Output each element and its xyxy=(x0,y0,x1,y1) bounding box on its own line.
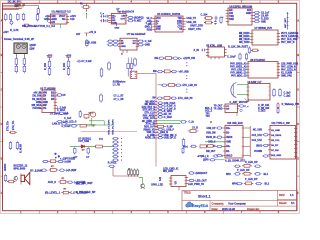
resistor R10 xyxy=(58,181,67,184)
svg-text:C?_0.1uF: C?_0.1uF xyxy=(82,61,93,63)
svg-text:LED_PWR_5V: LED_PWR_5V xyxy=(188,183,204,186)
svg-text:PHY_CLK_25M: PHY_CLK_25M xyxy=(281,39,297,41)
U11 inner labels xyxy=(271,129,282,157)
U6 inner text xyxy=(229,10,252,21)
net labels ETH column b xyxy=(13,120,15,130)
row C label xyxy=(245,178,258,181)
resistor R27 xyxy=(100,93,103,102)
diode D7 xyxy=(81,145,85,152)
mid row w+ xyxy=(183,145,225,149)
svg-text:E: E xyxy=(297,158,299,161)
svg-text:BL2: BL2 xyxy=(265,183,270,186)
wire q green a xyxy=(90,118,92,125)
svg-text:R_UP_10K: R_UP_10K xyxy=(258,105,270,107)
wire mid red vertical xyxy=(112,168,114,177)
frame column ticks top xyxy=(39,1,260,4)
capacitor C12 xyxy=(254,165,261,167)
continuation dots b xyxy=(186,75,187,79)
net label LAN_LED xyxy=(56,120,76,123)
resistor R2 xyxy=(23,57,26,73)
svg-text:ETH_VC_TAP2: ETH_VC_TAP2 xyxy=(112,119,115,135)
svg-text:C_104: C_104 xyxy=(201,14,208,17)
svg-text:Sheet:: Sheet: xyxy=(279,202,287,205)
U11 left rows xyxy=(252,130,270,158)
U8 left pins xyxy=(246,64,248,76)
svg-text:R_Wakeup_PW: R_Wakeup_PW xyxy=(282,103,300,106)
svg-text:C_x: C_x xyxy=(245,106,250,108)
svg-text:CC2_5.1K: CC2_5.1K xyxy=(252,140,263,142)
row2 right label xyxy=(179,71,190,73)
R11 value xyxy=(64,188,67,190)
capacitor C29 xyxy=(156,97,163,99)
UB pins xyxy=(118,41,139,47)
R10 value xyxy=(62,178,65,180)
svg-text:C10: C10 xyxy=(70,18,75,21)
U3 pin numbers xyxy=(171,178,186,185)
wire LAN to right xyxy=(67,124,96,126)
svg-text:C5: C5 xyxy=(63,95,67,97)
row B right net xyxy=(264,173,269,176)
svg-text:MII_MDIO: MII_MDIO xyxy=(145,104,156,106)
resistor R21 xyxy=(100,67,103,77)
svg-text:C_2x: C_2x xyxy=(189,122,195,124)
UA pins xyxy=(108,15,111,23)
net labels micro xyxy=(113,81,126,87)
svg-text:C_DEC: C_DEC xyxy=(258,111,266,113)
svg-text:PC?_USB: PC?_USB xyxy=(78,141,89,143)
UA green dot xyxy=(126,15,127,16)
svg-text:C2?: C2? xyxy=(76,34,81,36)
svg-text:NP3: NP3 xyxy=(232,183,237,186)
svg-text:ANT_NET: ANT_NET xyxy=(284,17,287,28)
IC U5 title xyxy=(206,44,222,47)
U9 right labels xyxy=(284,92,292,97)
svg-text:VIN: VIN xyxy=(43,93,47,95)
U3 bottom wire xyxy=(178,187,180,191)
U3 left label xyxy=(151,184,163,187)
svg-text:MII_TXD0: MII_TXD0 xyxy=(239,42,250,44)
svg-text:R?: R? xyxy=(62,178,65,180)
svg-text:GPIO_LED: GPIO_LED xyxy=(151,184,163,187)
svg-text:RXD: RXD xyxy=(229,19,234,21)
svg-text:R232: R232 xyxy=(147,29,153,31)
svg-text:C3_NP: C3_NP xyxy=(261,15,269,17)
svg-text:SJ1: SJ1 xyxy=(160,176,162,181)
resistor network RN1 xyxy=(128,167,139,176)
crystal Y1 xyxy=(127,58,130,77)
svg-text:PHY2_LED/USB: PHY2_LED/USB xyxy=(281,36,299,38)
capacitor C32 xyxy=(134,57,137,66)
resistor R32 xyxy=(96,145,103,148)
diode D3 xyxy=(9,131,17,133)
resistor R26 on green xyxy=(80,124,95,127)
U2 pins xyxy=(40,93,57,109)
resistor R31 xyxy=(244,182,254,185)
U1 right labels xyxy=(70,15,76,21)
U7 pin numbers xyxy=(252,33,278,42)
resistor R24 xyxy=(182,138,185,147)
svg-text:R_NET: R_NET xyxy=(134,21,142,23)
svg-text:TITLE:: TITLE: xyxy=(184,192,192,195)
resistor R19 xyxy=(167,84,176,87)
svg-text:U? Var-bbd2GvF: U? Var-bbd2GvF xyxy=(127,33,146,36)
capacitor C2 xyxy=(17,13,20,21)
U6 left pins xyxy=(226,10,228,21)
svg-text:RTS: RTS xyxy=(156,29,161,31)
svg-text:C?: C? xyxy=(86,157,90,159)
svg-text:VBUS: VBUS xyxy=(226,137,233,139)
capacitor C4 xyxy=(36,13,39,21)
svg-text:F: F xyxy=(297,192,299,195)
IC U3 labels above xyxy=(163,167,179,173)
diode D5 xyxy=(179,57,182,59)
diode D4 xyxy=(245,99,249,102)
svg-text:C2S_PWR_USB: C2S_PWR_USB xyxy=(281,64,298,66)
svg-text:SHLD: SHLD xyxy=(226,155,232,157)
U3 right row2 xyxy=(188,179,207,182)
UB right rows xyxy=(137,40,152,47)
title block sheet name xyxy=(198,194,211,198)
resistor R14 xyxy=(204,17,213,20)
svg-text:SBU1: SBU1 xyxy=(256,146,263,148)
svg-text:D: D xyxy=(1,123,3,126)
svg-text:B12_GND: B12_GND xyxy=(271,155,281,157)
U12 left labels xyxy=(214,106,226,111)
U8 pin numbers xyxy=(248,64,278,76)
svg-text:USB_TX: USB_TX xyxy=(187,17,197,20)
resistor R34 xyxy=(86,147,90,159)
transistor Q5 xyxy=(89,112,96,117)
svg-text:ETH_CLK: ETH_CLK xyxy=(144,113,155,115)
U10 left rows xyxy=(206,127,223,157)
connector J1 xyxy=(15,4,25,6)
U10 pin numbers xyxy=(225,128,243,156)
EasyEDA logo xyxy=(186,202,209,208)
svg-text:(2)W: (2)W xyxy=(30,49,36,51)
IC U7 title xyxy=(255,27,273,30)
wire q green d xyxy=(91,124,113,126)
capacitor C26 xyxy=(171,70,178,72)
cluster label xyxy=(201,14,208,17)
IC U10 xyxy=(225,126,243,159)
svg-text:R?: R? xyxy=(64,188,67,190)
U3 right row1 xyxy=(188,172,208,175)
svg-text:GN: GN xyxy=(226,109,230,111)
svg-text:A4_VBUS: A4_VBUS xyxy=(271,134,282,137)
capacitor C5 xyxy=(56,94,66,97)
U6 right row2 xyxy=(252,14,269,17)
svg-text:R_49.9R: R_49.9R xyxy=(20,144,23,153)
filter row3 green stub xyxy=(158,84,163,86)
svg-text:U1 AMS1117-3.3: U1 AMS1117-3.3 xyxy=(52,10,72,13)
svg-text:C2_1uF: C2_1uF xyxy=(261,12,270,14)
svg-text:C_22uF: C_22uF xyxy=(57,110,66,112)
svg-text:REV:: REV: xyxy=(279,194,285,197)
capacitor C18 xyxy=(248,46,250,54)
U11 right pins xyxy=(296,129,298,157)
svg-text:+5V_USB: +5V_USB xyxy=(179,71,190,73)
resistor R11 xyxy=(61,191,70,194)
capacitor C35 xyxy=(86,39,88,47)
svg-text:U11 TYPE-C_16P: U11 TYPE-C_16P xyxy=(272,123,291,125)
svg-text:C_PIN_1.5uF_NP: C_PIN_1.5uF_NP xyxy=(76,191,96,194)
wire to U1 xyxy=(47,17,49,22)
R5 R6 value xyxy=(20,144,23,153)
svg-text:ETH_INT_N: ETH_INT_N xyxy=(143,110,156,112)
capacitor C6 xyxy=(41,169,48,171)
svg-text:D1-: D1- xyxy=(226,132,230,134)
IC U7 xyxy=(252,30,278,45)
svg-text:X_IN: X_IN xyxy=(194,49,200,52)
capacitor C21 xyxy=(273,88,275,97)
capacitor C13 xyxy=(234,173,241,175)
net labels ETH column a xyxy=(8,120,10,131)
U2 right labels xyxy=(57,108,66,113)
title block Company xyxy=(212,202,247,205)
net pair xyxy=(79,110,81,118)
U5 pin numbers xyxy=(208,50,209,56)
capacitor C25 xyxy=(157,70,164,72)
antenna net vertical xyxy=(284,12,288,30)
capacitor C7 xyxy=(59,169,66,171)
filter row2 label xyxy=(153,71,157,73)
UB pin numbers xyxy=(120,41,137,47)
wire green pair a xyxy=(156,120,181,122)
resistor R15 xyxy=(204,21,213,24)
wire audio green xyxy=(70,145,115,147)
U6 right row1 xyxy=(252,11,270,14)
row3 net label xyxy=(45,192,61,195)
frame column ticks bottom xyxy=(39,211,260,214)
svg-text:CC1_5.1K: CC1_5.1K xyxy=(252,135,263,137)
U6 pin numbers xyxy=(228,10,252,21)
row label low xyxy=(62,125,78,128)
rail wire xyxy=(137,74,156,167)
svg-text:L?_FB: L?_FB xyxy=(113,85,120,87)
svg-text:Your Company: Your Company xyxy=(228,202,246,205)
resistor R17 xyxy=(164,57,173,60)
svg-text:USB_RX: USB_RX xyxy=(187,21,197,24)
svg-text:FB_NET: FB_NET xyxy=(32,99,41,101)
svg-text:R_12K1: R_12K1 xyxy=(164,111,173,113)
wire below U1 xyxy=(60,24,62,28)
svg-text:DM_OUT: DM_OUT xyxy=(206,151,216,153)
U10 left pins xyxy=(223,128,225,156)
svg-text:(3)O/P(1): (3)O/P(1) xyxy=(134,17,144,19)
net label NP row xyxy=(50,112,69,116)
capacitor C24 xyxy=(172,57,179,59)
net label VIN xyxy=(10,29,19,32)
row2 net label xyxy=(48,181,57,184)
U7 below label xyxy=(228,46,249,49)
svg-text:NC_(33R)_C: NC_(33R)_C xyxy=(142,121,156,123)
svg-text:ETH_CT_TAP1: ETH_CT_TAP1 xyxy=(108,119,111,135)
net label vertical audio xyxy=(4,163,7,171)
svg-text:5: 5 xyxy=(121,54,123,56)
svg-text:VO: VO xyxy=(226,106,229,108)
power input net label xyxy=(8,1,20,4)
switch label xyxy=(22,25,55,28)
svg-text:(2)P5: (2)P5 xyxy=(203,160,209,162)
row1 right label xyxy=(66,169,77,172)
svg-text:FB: FB xyxy=(43,99,46,101)
UA below flag xyxy=(115,24,120,29)
U5 pins xyxy=(206,50,219,60)
IC U2 xyxy=(42,90,55,113)
resistor R18 xyxy=(163,70,172,73)
svg-text:ETH_LED_P2: ETH_LED_P2 xyxy=(183,85,198,87)
U7 left labels xyxy=(239,33,250,44)
resistor R16 xyxy=(251,49,259,51)
wire drop to C1 xyxy=(34,5,39,8)
transistor Q3 xyxy=(141,183,145,188)
svg-text:DC_IN_5V: DC_IN_5V xyxy=(8,1,20,4)
svg-text:USB_DP_O: USB_DP_O xyxy=(164,138,177,140)
svg-text:C_1uF: C_1uF xyxy=(145,41,153,43)
title block outline xyxy=(182,191,297,211)
svg-text:C?_L_R7: C?_L_R7 xyxy=(114,95,125,97)
U4 pins xyxy=(152,18,185,29)
svg-text:C_10uF: C_10uF xyxy=(227,56,236,59)
svg-text:PHY_RXD0_A1: PHY_RXD0_A1 xyxy=(230,63,247,66)
UB below marks xyxy=(121,50,127,56)
net label mic xyxy=(76,181,93,185)
capacitor C37 xyxy=(255,182,262,184)
svg-text:F1: F1 xyxy=(80,4,83,6)
IC U8 title xyxy=(250,59,266,62)
svg-text:1.0: 1.0 xyxy=(290,194,294,197)
row3 right label xyxy=(70,192,88,195)
capacitor C1 xyxy=(37,7,39,15)
svg-text:AVDD_33: AVDD_33 xyxy=(145,137,156,140)
svg-text:E: E xyxy=(1,158,3,161)
transistor Q4 xyxy=(84,115,89,120)
svg-text:R_12K_1%_RSET: R_12K_1%_RSET xyxy=(228,46,249,49)
U4 left labels xyxy=(145,18,153,31)
title block REV label xyxy=(279,194,294,197)
svg-text:BL1: BL1 xyxy=(264,173,269,176)
svg-text:AUDIO: AUDIO xyxy=(4,163,7,171)
svg-text:XTAL_IN: XTAL_IN xyxy=(146,123,156,126)
IC U2 title xyxy=(40,87,56,90)
svg-text:ETH_TX-: ETH_TX- xyxy=(13,120,15,130)
svg-text:D2+: D2+ xyxy=(226,146,231,148)
svg-text:NP2: NP2 xyxy=(226,173,231,176)
svg-text:2025-12-26: 2025-12-26 xyxy=(222,208,236,211)
audio section labels xyxy=(78,139,103,143)
svg-text:Company:: Company: xyxy=(212,202,225,205)
svg-text:VBUS_IN: VBUS_IN xyxy=(206,137,216,139)
U2 pin numbers xyxy=(42,93,55,109)
svg-text:R_10K: R_10K xyxy=(45,63,47,70)
svg-text:A7_DM: A7_DM xyxy=(271,149,279,152)
rail right rows upper xyxy=(157,102,176,119)
U12 ring xyxy=(240,109,242,111)
row C left net xyxy=(232,183,237,186)
U7 right labels xyxy=(281,33,299,44)
row A label xyxy=(245,161,258,164)
R8 value xyxy=(51,166,54,168)
svg-text:D2-: D2- xyxy=(226,151,230,153)
svg-text:TXD: TXD xyxy=(229,16,234,18)
svg-text:TP2: TP2 xyxy=(206,116,211,118)
net label wakeup xyxy=(282,103,300,106)
mid cluster red box xyxy=(188,128,199,133)
svg-text:EN: EN xyxy=(229,10,233,12)
capacitor C27 xyxy=(161,84,168,86)
IC UB xyxy=(120,38,137,50)
net label PT xyxy=(60,158,75,160)
frame row letters right xyxy=(297,19,299,195)
labels mid rows xyxy=(114,95,125,101)
continuation dots a xyxy=(186,62,187,66)
svg-text:C_ANT_MATCH: C_ANT_MATCH xyxy=(230,101,248,104)
svg-text:X1_CLKIN: X1_CLKIN xyxy=(281,73,292,75)
svg-text:C_2p2: C_2p2 xyxy=(284,95,292,97)
svg-text:GND: GND xyxy=(121,46,126,48)
svg-text:GND: GND xyxy=(145,45,150,47)
svg-text:SW_PUSHBUTTON_5.1_6.6: SW_PUSHBUTTON_5.1_6.6 xyxy=(22,25,55,28)
wire red UA left xyxy=(103,19,104,22)
svg-text:TP_GND: TP_GND xyxy=(214,108,223,110)
rail junction dots xyxy=(155,120,156,127)
U4 right label row3 xyxy=(190,25,203,28)
LED D1 xyxy=(10,20,13,26)
transistor Q1 xyxy=(4,174,6,182)
svg-text:NC: NC xyxy=(62,18,66,21)
svg-text:GND_PAD: GND_PAD xyxy=(281,75,292,78)
resistor R30 top xyxy=(80,3,90,11)
svg-text:C?(NL)_R: C?(NL)_R xyxy=(198,156,209,158)
svg-text:C_0.1uF_B: C_0.1uF_B xyxy=(164,108,176,110)
svg-text:C_3p3: C_3p3 xyxy=(284,92,292,94)
resistor R33 xyxy=(73,147,78,159)
mid dot blue xyxy=(197,156,198,157)
svg-text:R_PULL: R_PULL xyxy=(108,162,117,164)
capacitor C31 xyxy=(77,60,93,63)
sheet border inner frame xyxy=(3,3,297,210)
terminal label xyxy=(4,38,34,41)
svg-text:PHY_MDIO_C1: PHY_MDIO_C1 xyxy=(230,73,247,75)
svg-text:VCC: VCC xyxy=(156,18,161,20)
svg-text:GND: GND xyxy=(115,27,120,29)
junction dots power xyxy=(86,10,87,14)
screw terminal J2 xyxy=(14,43,27,54)
svg-text:PGOOD: PGOOD xyxy=(33,108,42,110)
svg-text:+_(2)PT(USB): +_(2)PT(USB) xyxy=(60,158,75,160)
svg-text:PHY_CRS_DV: PHY_CRS_DV xyxy=(231,70,247,72)
frame column numbers bottom xyxy=(20,211,280,214)
svg-text:w(+): w(+) xyxy=(183,146,188,148)
buzzer labels xyxy=(14,165,28,171)
svg-text:GND: GND xyxy=(44,18,50,21)
svg-text:USB_DM: USB_DM xyxy=(206,132,216,134)
IC U12 small xyxy=(225,104,238,113)
transformer T1 xyxy=(130,71,137,78)
rail left labels xyxy=(142,101,156,139)
svg-text:C?_L_R8: C?_L_R8 xyxy=(114,99,125,101)
UB left caps xyxy=(107,40,119,46)
resistor R23 on red wire xyxy=(156,125,173,128)
svg-text:+5V?: +5V? xyxy=(3,32,9,34)
svg-text:PHY_LED0_N: PHY_LED0_N xyxy=(281,67,296,69)
svg-text:UD-: UD- xyxy=(148,24,152,26)
IC UA title xyxy=(117,9,135,14)
U3 vertical label xyxy=(160,176,162,181)
svg-text:NPN_8050: NPN_8050 xyxy=(14,168,26,171)
svg-text:TP1: TP1 xyxy=(206,113,211,115)
svg-text:WS_DRV: WS_DRV xyxy=(163,170,174,173)
